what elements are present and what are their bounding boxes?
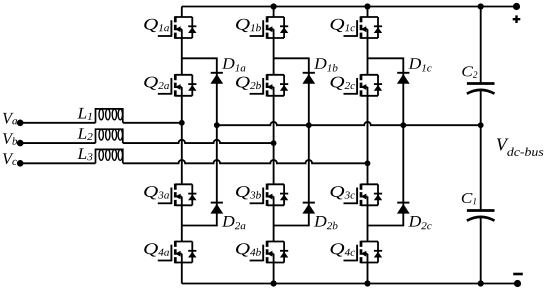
label Va — [3, 113, 17, 125]
node bottom rail phase c — [364, 280, 370, 286]
label Q2b — [236, 77, 261, 90]
transistor Q2c — [344, 74, 383, 96]
node neutral-string c — [400, 122, 406, 128]
capacitor C2 — [467, 84, 495, 94]
label C1 — [462, 193, 476, 204]
transistor Q4a — [158, 241, 197, 263]
label D2b — [314, 216, 338, 229]
node bottom rail capacitor — [478, 280, 484, 286]
label Q3b — [236, 186, 261, 199]
transistor Q2b — [250, 74, 289, 96]
label Vb — [3, 133, 17, 145]
inductor L3 coil — [96, 149, 123, 163]
label C2 — [462, 66, 477, 77]
label D1b — [314, 58, 338, 71]
node neutral-string b — [306, 122, 312, 128]
wire bottom DC rail — [182, 283, 518, 285]
label Q1c — [331, 19, 356, 32]
transistor Q4c — [344, 241, 383, 263]
transistor Q3c — [344, 184, 383, 206]
node top rail phase b — [271, 3, 277, 9]
wire phase c leg — [367, 7, 369, 284]
transistor Q3b — [250, 184, 289, 206]
label Q2a — [144, 77, 169, 90]
label L1 — [77, 108, 91, 120]
node phase c midpoint — [365, 160, 371, 166]
inductor L1 coil — [96, 109, 123, 123]
diode D2c — [397, 203, 410, 214]
node neutral-string a — [214, 122, 220, 128]
label Q4a — [144, 243, 169, 256]
wire phase c input row — [20, 160, 367, 163]
node Va source terminal — [17, 120, 24, 127]
wire clamp string a — [182, 58, 217, 225]
diode D1a — [210, 73, 223, 84]
label D2c — [408, 216, 431, 229]
label Q4b — [236, 243, 261, 256]
label Q1b — [236, 19, 261, 32]
wire phase b input row — [20, 140, 273, 143]
node phase b midpoint — [271, 140, 277, 146]
diode D1b — [302, 73, 315, 84]
wire phase a leg — [181, 7, 183, 284]
label Q2c — [331, 77, 356, 90]
node Vc source terminal — [17, 160, 24, 167]
wire clamp string c — [368, 58, 404, 225]
transistor Q2a — [158, 74, 197, 96]
transistor Q1c — [344, 16, 383, 38]
label L2 — [77, 128, 92, 140]
label Q3c — [331, 186, 356, 199]
node positive terminal — [513, 3, 520, 10]
label L3 — [77, 148, 92, 160]
node top rail phase c — [364, 3, 370, 9]
node phase a midpoint — [179, 120, 185, 126]
transistor Q1b — [250, 16, 289, 38]
node top rail capacitor — [478, 3, 484, 9]
wire neutral row — [217, 122, 481, 125]
label D2a — [222, 216, 246, 229]
wire capacitor branch — [480, 7, 482, 284]
plus sign — [513, 15, 521, 23]
label Vdc-bus — [497, 139, 544, 156]
capacitor C1 — [467, 211, 495, 221]
minus sign — [513, 273, 523, 276]
label Q3a — [144, 186, 169, 199]
inductor L2 coil — [96, 129, 123, 143]
diode D2b — [302, 203, 315, 214]
label Q4c — [331, 243, 356, 256]
transistor Q4b — [250, 241, 289, 263]
wire top DC rail — [182, 6, 517, 8]
wire phase b leg — [273, 7, 275, 284]
node negative terminal — [514, 280, 521, 287]
label Vc — [3, 153, 17, 165]
wire phase a input row — [20, 122, 181, 124]
node bottom rail phase b — [271, 280, 277, 286]
label Q1a — [144, 19, 169, 32]
wire clamp string b — [274, 58, 309, 225]
transistor Q3a — [158, 184, 197, 206]
label D1c — [408, 58, 431, 71]
label D1a — [222, 58, 246, 71]
node neutral-capacitor — [478, 122, 484, 128]
node Vb source terminal — [17, 140, 24, 147]
diode D1c — [397, 73, 410, 84]
transistor Q1a — [158, 16, 197, 38]
diode D2a — [210, 203, 223, 214]
